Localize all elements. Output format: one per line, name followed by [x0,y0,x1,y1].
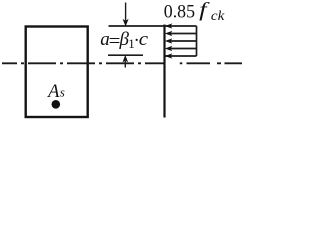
neutral axis dash-dot center line (left part) [2,62,164,64]
stress block top edge (with dimension extension line) [109,25,197,27]
dimension down arrow [125,3,127,21]
svg-text:ck: ck [211,9,225,24]
dimension up arrow [124,61,126,68]
stress block bottom edge [166,55,197,57]
svg-text:0.85: 0.85 [164,3,195,23]
section face vertical line [163,25,165,118]
stress arrow 5 head (on bottom edge) [166,54,172,58]
stress arrow 4 [171,48,197,50]
neutral axis dash-dot center line (right part) [180,62,242,64]
stress arrow 3 [171,40,197,42]
dimension bottom extension line [108,54,143,56]
svg-text:As: As [46,82,65,102]
beam cross-section rectangle [26,27,88,118]
stress arrow 2 [171,33,197,35]
stress arrow 1 head [166,24,172,28]
svg-text:c: c [139,29,149,50]
rebar dot [52,100,61,109]
stress block right edge [196,26,198,56]
